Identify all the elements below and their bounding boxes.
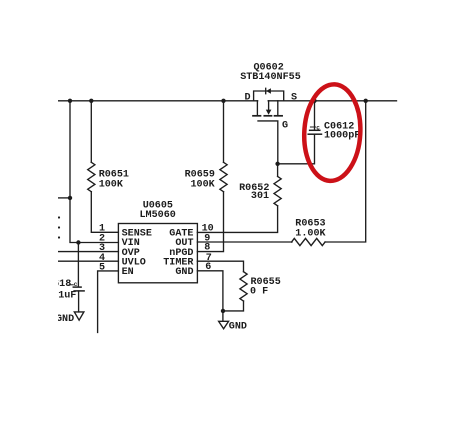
capacitor C0612 [308,101,321,134]
wire gate node to cap bottom [278,135,315,164]
svg-text:1.00K: 1.00K [295,228,326,239]
annotation red circle around C0612 [302,83,363,182]
junction gate node [275,162,279,166]
svg-text:c: c [74,281,78,288]
junction on rail at R0653 riser [364,99,368,103]
ground right [219,321,229,329]
svg-text:EN: EN [122,267,134,278]
svg-text:STB140NF55: STB140NF55 [240,72,301,83]
white crop mask left edge [0,0,58,443]
junction on rail at x70 [68,99,72,103]
junction on rail at R0651 [89,99,93,103]
junction VIN / C0618 [76,240,80,244]
resistor R0651 [88,101,119,233]
svg-text:100K: 100K [99,180,124,191]
svg-text:c: c [316,125,320,132]
cropped dot 2 [58,226,60,228]
wire GND pin6 [197,271,223,322]
svg-text:LM5060: LM5060 [140,210,176,221]
wire EN pin5 [98,271,119,333]
junction left stub node [68,196,72,200]
ground left [74,312,84,320]
svg-text:6: 6 [205,262,211,273]
wire UVLO pin4 [58,260,118,262]
resistor R0653 [197,101,365,246]
wire TIMER pin7 to R0655 [197,261,243,272]
resistor R0652 [197,164,281,233]
transistor Q0602 mosfet [253,101,282,164]
svg-text:D: D [245,93,251,104]
junction GND node right [221,309,225,313]
svg-text:S: S [291,93,297,104]
svg-text:G: G [282,121,288,132]
svg-text:1000pF: 1000pF [324,131,360,142]
svg-text:1uF: 1uF [58,291,76,302]
cropped dot 1 [58,216,60,218]
svg-text:301: 301 [251,191,269,202]
resistor R0655 [223,272,247,311]
capacitor C0618 [69,243,84,312]
svg-text:5: 5 [99,263,105,274]
cropped dot 3 [58,236,60,238]
svg-text:GND: GND [229,322,247,333]
wire top rail right (S net) [268,100,396,102]
svg-text:GND: GND [175,267,193,278]
IC U0605 box [118,224,197,283]
wire top rail left (D net) [58,100,258,102]
wire left vertical to VIN pin2 [70,101,118,243]
junction on rail at R0659 [221,99,225,103]
svg-text:0 F: 0 F [250,287,268,298]
wire OVP pin3 [58,251,118,253]
svg-text:100K: 100K [191,180,216,191]
junction on rail at C0612 [312,99,316,103]
resistor R0659 [197,101,227,252]
svg-text:GND: GND [56,314,74,325]
wire stub left at node [58,197,70,199]
transistor Q0602 body diode [254,88,284,101]
